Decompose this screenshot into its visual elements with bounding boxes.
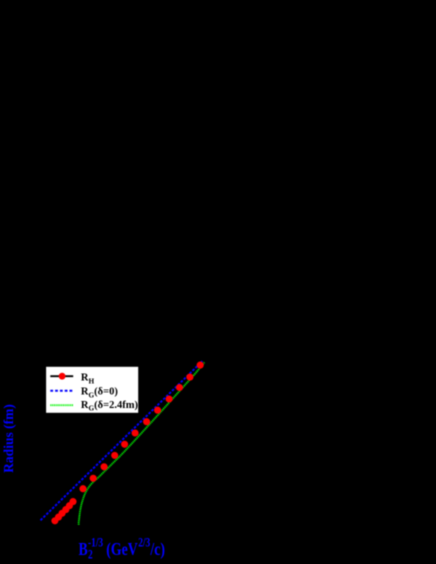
svg-text:B: B xyxy=(79,540,88,559)
svg-text:RG(δ=0): RG(δ=0) xyxy=(81,387,118,400)
svg-text:/c): /c) xyxy=(150,540,165,559)
svg-text:-1/3: -1/3 xyxy=(88,536,104,549)
svg-text:2: 2 xyxy=(88,548,93,561)
svg-text:2/3: 2/3 xyxy=(138,536,150,549)
svg-text:(GeV: (GeV xyxy=(106,540,138,559)
svg-text:Radius (fm): Radius (fm) xyxy=(1,404,16,473)
